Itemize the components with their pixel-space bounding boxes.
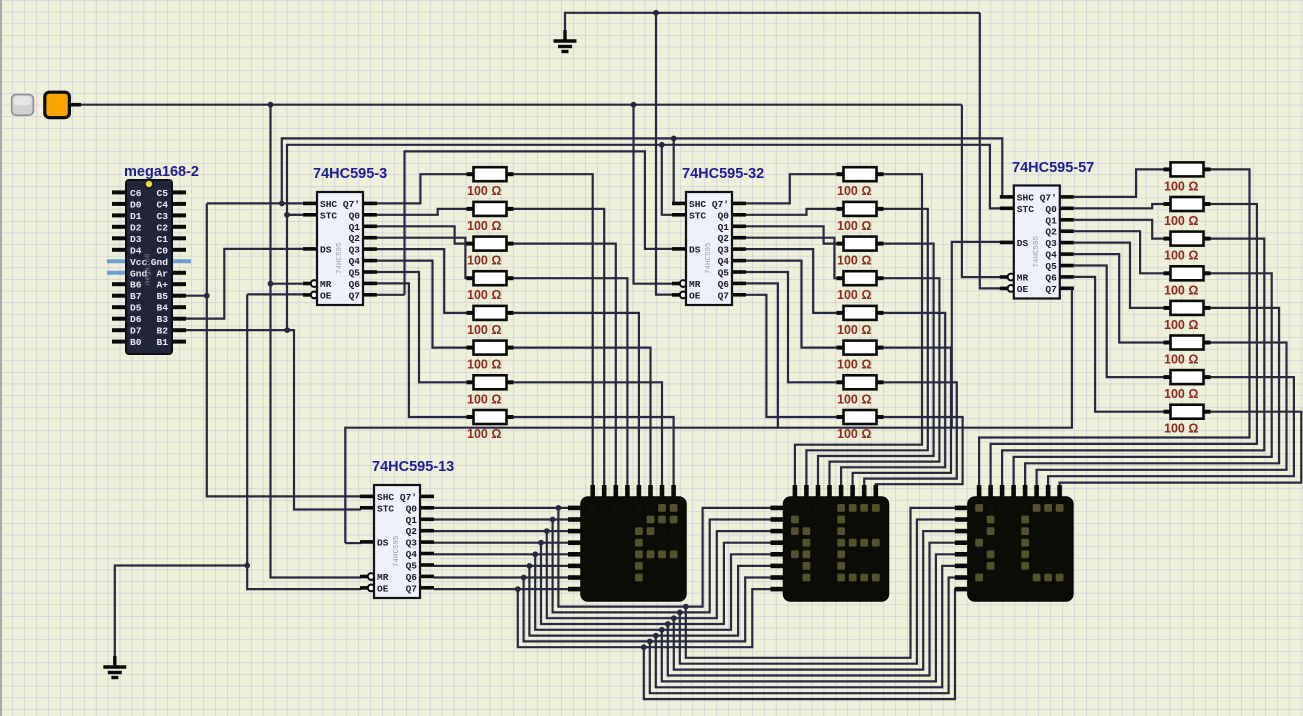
svg-text:Q5: Q5 (718, 268, 730, 279)
svg-text:100 Ω: 100 Ω (1164, 179, 1198, 193)
wire U1 pinQ7p to resistor R1-1 (377, 174, 467, 203)
svg-text:Q7: Q7 (406, 583, 418, 594)
svg-text:OE: OE (320, 290, 332, 301)
wire U1 pinQ1 to resistor R1-3 (377, 226, 467, 243)
svg-text:D3: D3 (130, 234, 142, 245)
wire U57 pinQ3 to resistor R3-5 (1074, 243, 1164, 308)
resistor R1-8 100ohm col1 (467, 410, 514, 441)
svg-text:100 Ω: 100 Ω (1164, 353, 1198, 367)
wire U13 Q3 row to matrix M1 row pin 4 (434, 542, 570, 544)
wire row5 link to matrix M2 row pin 5 (535, 554, 772, 630)
resistor R3-6 100ohm col3 (1164, 336, 1211, 367)
svg-text:100 Ω: 100 Ω (1164, 283, 1198, 297)
resistor R1-1 100ohm col1 (467, 167, 514, 198)
ground GND2 bottom-left (103, 656, 126, 678)
svg-text:100 Ω: 100 Ω (467, 392, 501, 406)
wire U32 pinQ7p to resistor R2-1 (746, 174, 837, 203)
resistor R1-7 100ohm col1 (467, 375, 514, 406)
wire R1-1 to matrix M1 column pin 1 (513, 174, 593, 486)
resistor R3-8 100ohm col3 (1164, 405, 1211, 436)
wire STC bus (287, 145, 1014, 215)
wire MR drop to MR pin U32 (634, 105, 674, 284)
wire mega B3 to DS pin U1 (186, 249, 304, 319)
svg-text:Q2: Q2 (718, 233, 730, 244)
wire row3 bus to matrix M3 row pin 3 (674, 531, 957, 670)
shift register U13 74HC595-13 (360, 485, 434, 598)
resistor R2-7 100ohm col2 (837, 375, 884, 406)
svg-text:MR: MR (377, 572, 389, 583)
junction STC row U1 (284, 212, 290, 218)
wire row1 bus to matrix M3 row pin 1 (686, 508, 957, 658)
svg-text:Q4: Q4 (1045, 250, 1057, 261)
junction MR-U1 row (268, 281, 274, 287)
wire row4 link to matrix M2 row pin 4 (541, 543, 773, 624)
svg-text:OE: OE (689, 290, 701, 301)
svg-text:B2: B2 (156, 326, 168, 337)
wire U32 pinQ5 to resistor R2-7 (746, 272, 837, 382)
svg-text:B1: B1 (156, 337, 168, 348)
wire STC vertical to STC row U1 (287, 215, 318, 330)
svg-text:MR: MR (689, 279, 701, 290)
junction row3 branch at matrix M1 (544, 528, 550, 534)
junction STC bus / U32 drop (659, 142, 665, 148)
push button (grey) SW1 (12, 95, 34, 116)
wire U32 pinQ2 to resistor R2-4 (746, 238, 837, 279)
svg-text:100 Ω: 100 Ω (1164, 422, 1198, 436)
wire U1 pinQ4 to resistor R1-6 (377, 261, 467, 348)
junction row6 branch at matrix M1 (527, 563, 533, 569)
svg-text:Q0: Q0 (406, 503, 418, 514)
svg-text:D7: D7 (130, 326, 142, 337)
svg-text:100 Ω: 100 Ω (837, 184, 871, 198)
wire U32 pinQ3 to resistor R2-5 (746, 249, 837, 313)
wire R1-2 to matrix M1 column pin 2 (513, 209, 605, 486)
svg-text:Q4: Q4 (406, 549, 418, 560)
wire R3-2 to matrix M3 column pin 2 (991, 204, 1257, 486)
svg-text:Q1: Q1 (718, 222, 730, 233)
svg-text:Q0: Q0 (349, 210, 361, 221)
svg-text:Q5: Q5 (406, 561, 418, 572)
svg-text:Q2: Q2 (349, 233, 361, 244)
junction row8 branch at matrix M1 (515, 586, 521, 592)
resistor R3-2 100ohm col3 (1164, 197, 1211, 228)
svg-text:MR: MR (1017, 273, 1029, 284)
svg-text:Q6: Q6 (718, 279, 730, 290)
wire R3-8 to matrix M3 column pin 8 (1060, 412, 1302, 486)
svg-text:B7: B7 (130, 291, 142, 302)
wire row6 link to matrix M2 row pin 6 (529, 566, 772, 636)
wire OE branch to OE pin U13 (247, 566, 361, 590)
junction SHC bus / U32 drop (671, 136, 677, 142)
led matrix M2 8x8 (771, 485, 889, 601)
svg-text:D0: D0 (130, 199, 142, 210)
wire U32 pinQ4 to resistor R2-6 (746, 261, 837, 348)
svg-text:B6: B6 (130, 280, 142, 291)
svg-text:100 Ω: 100 Ω (467, 184, 501, 198)
junction OE bus / OE-U32 drop (653, 10, 659, 16)
svg-text:Q2: Q2 (1045, 227, 1057, 238)
microcontroller U5 mega168-2 (107, 180, 191, 354)
wire U13 Q1 row to matrix M1 row pin 2 (434, 518, 570, 520)
wire R2-6 to matrix M2 column pin 6 (853, 348, 951, 486)
wire MR bus from button (81, 104, 962, 106)
wire U57 pinQ6 to resistor R3-8 (1074, 277, 1164, 412)
junction row5 lattice (659, 627, 665, 633)
junction row6 lattice (653, 633, 659, 639)
wire R2-5 to matrix M2 column pin 5 (841, 313, 945, 486)
svg-text:D2: D2 (130, 222, 142, 233)
svg-text:100 Ω: 100 Ω (837, 427, 871, 441)
wire R1-8 to matrix M1 column pin 8 (513, 417, 674, 486)
svg-text:Q1: Q1 (349, 222, 361, 233)
svg-text:100 Ω: 100 Ω (1164, 387, 1198, 401)
svg-text:SHC: SHC (689, 199, 706, 210)
svg-text:Q6: Q6 (349, 279, 361, 290)
wire row2 bus to matrix M3 row pin 2 (680, 520, 957, 664)
wire cascade riser to DS pin U57 (952, 242, 1001, 428)
wire STC row into pin U1 (287, 214, 304, 216)
wire U13 Q6 row to matrix M1 row pin 7 (434, 576, 570, 578)
wire R1-3 to matrix M1 column pin 3 (513, 244, 616, 486)
svg-text:Q2: Q2 (406, 526, 418, 537)
svg-text:Q3: Q3 (406, 538, 418, 549)
junction row2 lattice (677, 610, 683, 616)
led matrix M3 8x8 (955, 485, 1073, 601)
wire R3-7 to matrix M3 column pin 7 (1048, 377, 1294, 486)
svg-text:Q7: Q7 (349, 290, 361, 301)
wire R2-1 to matrix M2 column pin 1 (795, 174, 922, 486)
wire mega B2 to STC pin U13 (186, 330, 361, 509)
svg-text:Ar: Ar (156, 268, 168, 279)
svg-text:STC: STC (377, 503, 394, 514)
svg-text:Q1: Q1 (1045, 215, 1057, 226)
wire row5 bus to matrix M3 row pin 5 (662, 554, 957, 681)
svg-text:74HC595: 74HC595 (336, 242, 344, 274)
wire SHC drop to SHC pin U32 (674, 138, 686, 203)
junction row7 branch at matrix M1 (521, 575, 527, 581)
svg-text:D6: D6 (130, 314, 142, 325)
wire R2-8 to matrix M2 column pin 8 (876, 417, 963, 486)
svg-text:100 Ω: 100 Ω (837, 358, 871, 372)
svg-text:SHC: SHC (1017, 192, 1034, 203)
resistor R2-3 100ohm col2 (837, 237, 884, 268)
resistor R1-5 100ohm col1 (467, 306, 514, 337)
svg-text:DS: DS (689, 244, 701, 255)
svg-text:D5: D5 (130, 303, 142, 314)
junction row4 lattice (665, 621, 671, 627)
svg-text:DS: DS (377, 537, 389, 548)
resistor R3-1 100ohm col3 (1164, 162, 1211, 193)
svg-text:MR: MR (320, 279, 332, 290)
wire SHC vertical B5 net to SHC pin U13 (207, 203, 361, 496)
resistor R1-2 100ohm col1 (467, 202, 514, 233)
wire U13 Q0 row to matrix M1 row pin 1 (434, 507, 570, 509)
junction B5 / SHC vertical (204, 293, 210, 299)
wire row2 link to matrix M2 row pin 2 (553, 520, 773, 613)
wire R2-7 to matrix M2 column pin 7 (864, 382, 957, 486)
wire R3-4 to matrix M3 column pin 4 (1014, 273, 1272, 486)
wire U1 pinQ6 to resistor R1-8 (377, 283, 467, 417)
svg-text:100 Ω: 100 Ω (837, 392, 871, 406)
svg-text:Q7: Q7 (718, 290, 730, 301)
junction MR bus / mega-MR drop (268, 102, 274, 108)
wire MR vertical to MR pin U13 (271, 105, 362, 578)
wire Q7 U1 cascade to DS U32 (405, 151, 674, 294)
wire U57 pinQ1 to resistor R3-3 (1074, 220, 1164, 239)
svg-text:B5: B5 (156, 291, 168, 302)
shift register U32 74HC595-32 (672, 192, 746, 305)
wire Q7 pin U1 to cascade riser (377, 294, 405, 296)
wire U57 pinQ0 to resistor R3-2 (1074, 204, 1164, 208)
svg-text:C6: C6 (130, 188, 142, 199)
svg-text:B0: B0 (130, 337, 142, 348)
svg-text:DS: DS (1017, 238, 1029, 249)
resistor R3-5 100ohm col3 (1164, 301, 1211, 332)
resistor R3-7 100ohm col3 (1164, 370, 1211, 401)
wire R1-7 to matrix M1 column pin 7 (513, 382, 663, 486)
wire R1-5 to matrix M1 column pin 5 (513, 313, 639, 486)
svg-text:mega168-2: mega168-2 (124, 164, 199, 180)
wire U1 pinQ5 to resistor R1-7 (377, 272, 467, 382)
wire OE bus down to OE pin U57 (980, 13, 1001, 289)
svg-text:SHC: SHC (377, 492, 394, 503)
svg-text:Q5: Q5 (1045, 261, 1057, 272)
wire R3-1 to matrix M3 column pin 1 (979, 169, 1249, 486)
svg-text:C2: C2 (156, 222, 168, 233)
wire OE net down to ground2 (115, 294, 247, 658)
ground GND1 top (554, 30, 577, 52)
junction row1 branch at matrix M1 (556, 505, 562, 511)
wire Q6 U32 cascade drop (746, 283, 778, 427)
led matrix M1 8x8 (568, 485, 686, 601)
junction row4 branch at matrix M1 (538, 540, 544, 546)
wire R2-2 to matrix M2 column pin 2 (806, 209, 927, 486)
shift register U57 74HC595-57 (1000, 186, 1074, 299)
wire R1-6 to matrix M1 column pin 6 (513, 348, 651, 486)
wire U32 pinQ7 to resistor R2-8 (746, 295, 837, 417)
resistor R3-4 100ohm col3 (1164, 266, 1211, 297)
resistor R1-6 100ohm col1 (467, 341, 514, 372)
svg-text:100 Ω: 100 Ω (837, 288, 871, 302)
wire row8 link to matrix M2 row pin 8 (518, 589, 773, 647)
svg-text:100 Ω: 100 Ω (1164, 318, 1198, 332)
wire R3-3 to matrix M3 column pin 3 (1002, 239, 1264, 486)
wire row6 bus to matrix M3 row pin 6 (656, 566, 957, 687)
resistor R2-4 100ohm col2 (837, 271, 884, 302)
svg-text:Q0: Q0 (1045, 204, 1057, 215)
svg-text:Gnd: Gnd (151, 257, 169, 268)
svg-text:C5: C5 (156, 188, 168, 199)
wire U32 pinQ0 to resistor R2-2 (746, 209, 837, 215)
svg-text:100 Ω: 100 Ω (467, 288, 501, 302)
wire U13 Q5 row to matrix M1 row pin 6 (434, 565, 570, 567)
svg-text:74HC595-13: 74HC595-13 (372, 459, 454, 475)
resistor R2-5 100ohm col2 (837, 306, 884, 337)
junction OE net / OE-U13 branch (244, 563, 250, 569)
wire row7 bus to matrix M3 row pin 7 (650, 578, 957, 694)
svg-text:Q3: Q3 (718, 245, 730, 256)
svg-text:100 Ω: 100 Ω (467, 323, 501, 337)
junction row8 lattice (641, 644, 647, 650)
svg-text:Q3: Q3 (1045, 238, 1057, 249)
resistor R1-4 100ohm col1 (467, 271, 514, 302)
svg-text:STC: STC (689, 210, 706, 221)
svg-text:Q4: Q4 (349, 256, 361, 267)
wire row3 link to matrix M2 row pin 3 (547, 531, 773, 618)
wire U57 pinQ7p to resistor R3-1 (1074, 169, 1164, 197)
wire SHC row into SHC pin U1 (207, 202, 304, 204)
svg-text:Q7: Q7 (1045, 284, 1057, 295)
wire U32 pinQ1 to resistor R2-3 (746, 226, 837, 243)
junction B2 / STC vertical (284, 327, 290, 333)
svg-text:Q7': Q7' (1040, 192, 1057, 203)
wire Q7 U57 cascade bus to DS U13 (345, 289, 1074, 544)
resistor R2-8 100ohm col2 (837, 410, 884, 441)
wire row8 bus to matrix M3 row pin 8 (644, 589, 957, 699)
svg-text:Q6: Q6 (406, 572, 418, 583)
wire SHC bus (282, 138, 1014, 203)
svg-text:100 Ω: 100 Ω (1164, 249, 1198, 263)
shift register U3 74HC595-3 (303, 192, 377, 305)
svg-text:C3: C3 (156, 211, 168, 222)
svg-text:Q3: Q3 (349, 245, 361, 256)
wire MR drop to MR pin U57 (962, 105, 1001, 277)
wire U1 pinQ0 to resistor R1-2 (377, 209, 467, 215)
wire OE row U1 (247, 293, 304, 295)
svg-text:100 Ω: 100 Ω (467, 219, 501, 233)
svg-text:100 Ω: 100 Ω (467, 358, 501, 372)
svg-text:STC: STC (320, 210, 337, 221)
svg-text:74HC595-3: 74HC595-3 (313, 166, 387, 182)
svg-text:100 Ω: 100 Ω (467, 254, 501, 268)
junction row1 lattice (683, 604, 689, 610)
svg-text:100 Ω: 100 Ω (837, 323, 871, 337)
wire U57 pinQ5 to resistor R3-7 (1074, 266, 1164, 378)
resistor R2-1 100ohm col2 (837, 167, 884, 198)
svg-text:Q6: Q6 (1045, 272, 1057, 283)
svg-text:74HC595-57: 74HC595-57 (1012, 160, 1094, 176)
resistor R2-2 100ohm col2 (837, 202, 884, 233)
junction SHC row U1 (279, 201, 285, 207)
svg-text:DS: DS (320, 244, 332, 255)
junction row7 lattice (647, 639, 653, 645)
resistor R1-3 100ohm col1 (467, 237, 514, 268)
junction MR bus / MR-U32 drop (631, 102, 637, 108)
svg-text:74HC595: 74HC595 (1033, 235, 1041, 267)
svg-text:74HC595: 74HC595 (705, 242, 713, 274)
resistor R3-3 100ohm col3 (1164, 232, 1211, 263)
svg-text:OE: OE (377, 583, 389, 594)
wire U57 pinQ2 to resistor R3-4 (1074, 231, 1164, 273)
wire mega B5 to SHC net (186, 295, 207, 297)
wire R1-4 to matrix M1 column pin 4 (513, 278, 628, 486)
svg-text:100 Ω: 100 Ω (1164, 214, 1198, 228)
junction row2 branch at matrix M1 (550, 517, 556, 523)
svg-text:D4: D4 (130, 245, 142, 256)
wire gnd1 top bus (OE net) (565, 13, 980, 41)
svg-text:OE: OE (1017, 284, 1029, 295)
svg-text:STC: STC (1017, 204, 1034, 215)
svg-text:Q4: Q4 (718, 256, 730, 267)
svg-text:mega168: mega168 (145, 253, 153, 285)
wire U13 Q4 row to matrix M1 row pin 5 (434, 553, 570, 555)
svg-text:Q0: Q0 (718, 210, 730, 221)
wire R3-6 to matrix M3 column pin 6 (1037, 343, 1287, 487)
svg-text:100 Ω: 100 Ω (467, 427, 501, 441)
junction row5 branch at matrix M1 (532, 551, 538, 557)
wire U13 Q7 row to matrix M1 row pin 8 (434, 588, 570, 590)
wire U1 pinQ2 to resistor R1-4 (377, 238, 467, 279)
svg-text:Q7': Q7' (343, 199, 360, 210)
wire row1 link to matrix M2 row pin 1 (558, 508, 772, 607)
wire R2-3 to matrix M2 column pin 3 (818, 244, 934, 486)
svg-text:Q1: Q1 (406, 515, 418, 526)
svg-text:100 Ω: 100 Ω (837, 219, 871, 233)
wire row7 link to matrix M2 row pin 7 (524, 578, 773, 642)
svg-text:D1: D1 (130, 211, 142, 222)
svg-text:C1: C1 (156, 234, 168, 245)
wire R3-5 to matrix M3 column pin 5 (1025, 308, 1279, 486)
svg-text:Q7': Q7' (712, 199, 729, 210)
wire DS row into DS pin U13 (345, 542, 361, 544)
svg-text:100 Ω: 100 Ω (837, 254, 871, 268)
svg-text:B3: B3 (156, 314, 168, 325)
push button (orange) SW2 reset (45, 92, 81, 117)
wire U13 Q2 row to matrix M1 row pin 3 (434, 530, 570, 532)
svg-text:B4: B4 (156, 303, 168, 314)
svg-text:SHC: SHC (320, 199, 337, 210)
wire row4 bus to matrix M3 row pin 4 (668, 543, 957, 676)
svg-text:Q7': Q7' (400, 492, 417, 503)
svg-text:C4: C4 (156, 199, 168, 210)
svg-text:74HC595: 74HC595 (393, 535, 401, 567)
wire STC drop to STC pin U32 (662, 145, 686, 215)
wire R2-4 to matrix M2 column pin 4 (830, 278, 940, 486)
svg-text:Q5: Q5 (349, 268, 361, 279)
resistor R2-6 100ohm col2 (837, 341, 884, 372)
svg-text:C0: C0 (156, 245, 168, 256)
wire MR row to MR pin U1 (271, 283, 305, 285)
wire U57 pinQ4 to resistor R3-6 (1074, 254, 1164, 342)
svg-text:A+: A+ (156, 280, 168, 291)
svg-text:74HC595-32: 74HC595-32 (682, 166, 764, 182)
wire OE bus down to OE pin U32 (656, 13, 673, 295)
wire U1 pinQ3 to resistor R1-5 (377, 249, 467, 313)
junction row3 lattice (671, 615, 677, 621)
